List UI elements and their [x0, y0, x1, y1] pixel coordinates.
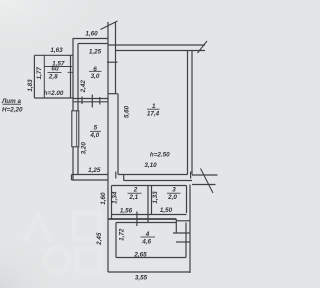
svg-text:2,42: 2,42 — [80, 80, 87, 94]
svg-text:4: 4 — [145, 231, 150, 238]
svg-text:1,60: 1,60 — [85, 30, 98, 37]
svg-text:4,0: 4,0 — [89, 132, 99, 139]
svg-text:3,55: 3,55 — [135, 275, 148, 282]
svg-text:1,83: 1,83 — [27, 79, 34, 92]
svg-text:6и: 6и — [51, 66, 59, 73]
svg-text:h=2.50: h=2.50 — [150, 152, 170, 159]
svg-text:5: 5 — [94, 125, 98, 132]
svg-text:2: 2 — [133, 187, 138, 194]
svg-text:Н=2,20: Н=2,20 — [2, 106, 23, 113]
svg-text:1: 1 — [152, 103, 156, 110]
svg-text:3,20: 3,20 — [81, 142, 88, 155]
svg-text:1,50: 1,50 — [160, 207, 173, 214]
svg-text:1,56: 1,56 — [120, 207, 133, 214]
svg-text:17,4: 17,4 — [147, 110, 160, 117]
svg-text:1,25: 1,25 — [88, 167, 101, 174]
svg-text:2,45: 2,45 — [96, 232, 103, 246]
svg-text:1,72: 1,72 — [119, 228, 126, 241]
svg-text:2,0: 2,0 — [167, 194, 177, 201]
svg-text:6: 6 — [93, 66, 97, 73]
svg-text:1,33: 1,33 — [152, 191, 159, 204]
svg-text:1,63: 1,63 — [50, 47, 63, 54]
svg-text:Лит а: Лит а — [1, 98, 22, 105]
svg-text:4,6: 4,6 — [141, 238, 151, 245]
svg-text:1,77: 1,77 — [36, 67, 43, 80]
svg-text:2,8: 2,8 — [48, 74, 58, 81]
svg-text:1,60: 1,60 — [100, 192, 107, 205]
svg-text:3,10: 3,10 — [144, 162, 157, 169]
svg-text:3,0: 3,0 — [91, 73, 100, 80]
svg-text:2,65: 2,65 — [133, 251, 147, 258]
svg-text:h=2.00: h=2.00 — [44, 90, 64, 97]
svg-text:1,25: 1,25 — [89, 48, 102, 55]
svg-text:3: 3 — [172, 187, 176, 194]
svg-text:2,1: 2,1 — [128, 194, 138, 201]
svg-text:5,60: 5,60 — [123, 105, 130, 118]
svg-text:1,34: 1,34 — [111, 191, 118, 204]
